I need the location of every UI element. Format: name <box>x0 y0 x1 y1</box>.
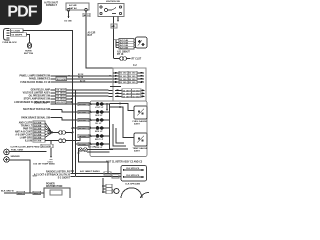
wires to motor boxes <box>110 104 135 111</box>
lamp captions <box>95 107 104 149</box>
ignition switch connector (left) <box>4 29 10 41</box>
svg-text:STOP LAMP BRAKE SW: STOP LAMP BRAKE SW <box>24 98 51 101</box>
svg-text:BELT LP: BELT LP <box>95 139 104 141</box>
svg-text:TEMP GAUGE: TEMP GAUGE <box>133 147 148 150</box>
svg-text:F1 20DB: F1 20DB <box>11 30 20 32</box>
svg-text:PANEL LAMPS DIMMER SW: PANEL LAMPS DIMMER SW <box>19 75 50 78</box>
svg-text:E2 18O: E2 18O <box>129 76 136 78</box>
svg-text:BRK LP: BRK LP <box>95 131 103 133</box>
svg-text:ASSY: ASSY <box>134 150 140 153</box>
svg-text:POWER: POWER <box>46 183 55 185</box>
svg-text:VOLTAGE LIMITER ASSY: VOLTAGE LIMITER ASSY <box>23 92 51 95</box>
svg-text:AND CLSTR: AND CLSTR <box>19 122 33 125</box>
label on C110 drop wire <box>10 145 40 148</box>
svg-text:RADIO/CLUSTER LPS: RADIO/CLUSTER LPS <box>46 170 70 173</box>
row 6 from rail <box>76 143 91 145</box>
bottom-left ground bus <box>4 192 44 194</box>
horn small circle <box>114 189 119 194</box>
svg-text:BAT A0: BAT A0 <box>69 7 77 10</box>
svg-text:A-B LMP CONT: A-B LMP CONT <box>15 134 32 137</box>
svg-text:E2 18O: E2 18O <box>120 76 127 78</box>
wire A2 with label box <box>51 78 113 80</box>
svg-text:G4 18GY: G4 18GY <box>123 89 132 92</box>
inline connector C100 <box>120 57 124 61</box>
svg-text:ASSY: ASSY <box>134 123 140 126</box>
svg-text:G6 20B: G6 20B <box>34 132 42 134</box>
svg-text:GEN LP: GEN LP <box>95 115 103 117</box>
fuel sender circle <box>4 149 10 155</box>
big circle bottom right <box>121 188 142 209</box>
group 1 rows <box>113 73 144 82</box>
wire to connector oval 1 <box>52 132 59 134</box>
svg-text:G10 8B: G10 8B <box>79 120 86 122</box>
svg-text:E2 18O: E2 18O <box>120 79 127 81</box>
svg-text:PANEL DIMMER E2: PANEL DIMMER E2 <box>29 78 51 81</box>
svg-text:TRUNK LT: TRUNK LT <box>21 126 33 128</box>
wire: drop from oval line to C110 arrow <box>50 140 52 142</box>
svg-text:FUSE BLOCK PANEL F4 18: FUSE BLOCK PANEL F4 18 <box>20 81 50 84</box>
svg-text:OIL LP: OIL LP <box>95 123 102 125</box>
svg-text:CLK SPR ASM: CLK SPR ASM <box>125 183 140 186</box>
svg-text:ANTI A-B CONT: ANTI A-B CONT <box>15 131 33 134</box>
left label rows group B <box>14 89 51 104</box>
svg-text:GEN FIELD LAMP: GEN FIELD LAMP <box>31 89 51 92</box>
svg-text:E-2 18OR/T: E-2 18OR/T <box>58 177 71 179</box>
wire from temp sender <box>9 160 30 193</box>
svg-text:SEAT BELT BUCKLE SW: SEAT BELT BUCKLE SW <box>23 108 51 111</box>
junction <box>51 132 53 134</box>
svg-text:E2 18O: E2 18O <box>129 79 136 81</box>
svg-text:A0 12R: A0 12R <box>88 146 96 149</box>
svg-text:G10 T: G10 T <box>34 193 41 195</box>
svg-text:A0 12: A0 12 <box>84 14 91 17</box>
svg-text:G4 18GY: G4 18GY <box>56 89 66 92</box>
row left label boxes <box>78 102 89 145</box>
svg-text:BAT: BAT <box>88 34 93 37</box>
svg-text:G4 20B: G4 20B <box>34 125 42 128</box>
svg-text:G9 18GY: G9 18GY <box>56 99 66 101</box>
svg-text:A-21 CKT 6 STR/BACK 20L/TN 20: A-21 CKT 6 STR/BACK 20L/TN 20 <box>34 173 71 176</box>
svg-text:A21 20B: A21 20B <box>120 47 128 50</box>
left label rows group A <box>19 75 50 84</box>
motor box M1 <box>134 106 147 119</box>
wire: relay down feed <box>113 20 115 58</box>
svg-text:E2 18O: E2 18O <box>120 73 127 75</box>
right mid text rows above power dist <box>34 170 71 179</box>
svg-text:A2 14R: A2 14R <box>69 4 77 7</box>
wire: fuse feed to right rail <box>23 30 73 173</box>
wire: to horn button <box>27 35 30 43</box>
svg-text:G6 18GY: G6 18GY <box>132 96 141 98</box>
svg-text:E2 18O: E2 18O <box>120 82 127 84</box>
svg-text:E2 18O: E2 18O <box>129 73 136 75</box>
wire: left pin drop <box>68 11 70 16</box>
svg-text:G10 T: G10 T <box>18 193 25 195</box>
svg-text:G8 20B: G8 20B <box>34 138 42 140</box>
svg-text:A21 16B: A21 16B <box>120 41 128 44</box>
power distribution box bottom center <box>46 183 63 188</box>
label box on wire <box>83 13 90 17</box>
left connector block labels <box>15 122 33 143</box>
svg-text:BLK GRD W: BLK GRD W <box>1 190 15 192</box>
svg-text:OIL PRESSURE SW: OIL PRESSURE SW <box>29 96 51 98</box>
svg-text:E2 18: E2 18 <box>78 74 84 76</box>
wire labels right of rows A <box>78 74 86 82</box>
bus lines bottom <box>73 173 122 175</box>
svg-text:CLK SPR LPS: CLK SPR LPS <box>126 175 140 177</box>
svg-text:A0 12R: A0 12R <box>88 32 96 35</box>
pin right of horn relay <box>85 8 88 11</box>
right rail <box>110 104 129 149</box>
wire label mid <box>88 32 96 38</box>
horn button symbol <box>27 43 31 48</box>
svg-text:DOME LAMP: DOME LAMP <box>34 101 49 104</box>
svg-text:VOLT LP: VOLT LP <box>95 107 104 109</box>
svg-text:FUEL GAUGE: FUEL GAUGE <box>133 120 148 123</box>
wire A1 <box>51 75 113 77</box>
bottom middle fuse cluster <box>79 148 83 152</box>
bottom right bus box <box>121 166 147 182</box>
svg-text:G10 18T TEMP SEND: G10 18T TEMP SEND <box>33 164 55 166</box>
lamp dot pairs <box>96 102 104 146</box>
svg-text:CLSTR ILLUM LAMPS FEED: CLSTR ILLUM LAMPS FEED <box>10 145 40 148</box>
rail start diagonal <box>75 90 77 176</box>
svg-text:G4 18GY: G4 18GY <box>132 89 141 92</box>
ignition relay box (top right) <box>106 1 121 3</box>
svg-text:G3 20B: G3 20B <box>34 123 42 125</box>
svg-text:G1 18GY: G1 18GY <box>123 93 132 95</box>
svg-text:LAMP GRD: LAMP GRD <box>20 137 33 140</box>
svg-text:PARK BRAKE SIGNAL SW: PARK BRAKE SIGNAL SW <box>21 116 51 119</box>
wire from fuel sender <box>9 151 46 153</box>
wire A3 <box>51 81 113 83</box>
label box 2 <box>11 33 27 37</box>
svg-text:E2 18O: E2 18O <box>129 82 136 84</box>
svg-text:A21 14BK/T RADIO: A21 14BK/T RADIO <box>80 170 100 173</box>
svg-text:G5 18B: G5 18B <box>64 21 72 23</box>
svg-text:G5 20B: G5 20B <box>34 129 42 131</box>
text above inline connector <box>117 51 130 57</box>
svg-text:A21 18B: A21 18B <box>120 44 128 47</box>
svg-text:SENDER: SENDER <box>11 156 21 158</box>
svg-text:A21 18BK/T: A21 18BK/T <box>117 51 130 54</box>
label box 1 <box>11 29 24 32</box>
svg-text:E2 18OR: E2 18OR <box>42 146 51 148</box>
pin left of horn relay <box>67 8 70 11</box>
svg-text:G9 20B: G9 20B <box>34 141 42 143</box>
svg-text:G9 18B: G9 18B <box>79 144 86 146</box>
svg-text:RT CLST: RT CLST <box>132 59 142 61</box>
svg-text:CLK SPR LPS: CLK SPR LPS <box>126 168 140 170</box>
svg-text:G4 18B: G4 18B <box>79 103 86 106</box>
svg-text:PDF: PDF <box>7 4 37 21</box>
wire: horn relay label text top <box>44 1 58 7</box>
svg-text:FUSE BLOCK: FUSE BLOCK <box>3 42 18 44</box>
X marks on box edge <box>89 103 91 145</box>
svg-text:G7 20B: G7 20B <box>34 135 42 137</box>
horn relay box <box>66 3 89 10</box>
svg-text:ILLUM: ILLUM <box>25 141 32 143</box>
svg-text:INST CLUSTER ASSY C2 AND C3: INST CLUSTER ASSY C2 AND C3 <box>106 161 143 164</box>
svg-text:G1 18GY: G1 18GY <box>132 93 141 95</box>
svg-text:BUTTON: BUTTON <box>24 53 33 55</box>
svg-text:PRK LP: PRK LP <box>95 147 103 149</box>
wire: right pin long drop to cluster <box>86 11 113 68</box>
motor box M2 <box>134 133 147 146</box>
group 2 rows <box>110 86 121 88</box>
svg-text:G6 18GY: G6 18GY <box>123 96 132 98</box>
svg-text:G5 18B: G5 18B <box>79 136 86 138</box>
wire row7 to connector oval 2 <box>45 140 59 142</box>
bottom right stubs <box>102 178 104 192</box>
single rows to cluster <box>21 101 51 119</box>
top-right connector rows table <box>114 40 136 48</box>
upper right rows box <box>113 68 146 101</box>
fan wires to junction <box>45 123 52 138</box>
down arrow top right <box>106 103 108 109</box>
PDF badge <box>0 0 42 25</box>
top-right connector box <box>136 37 148 48</box>
svg-text:G6 20B/PK: G6 20B/PK <box>11 35 23 37</box>
indicator rows <box>90 104 110 144</box>
svg-text:IGNITION SW: IGNITION SW <box>106 1 121 3</box>
svg-text:E2 18OR: E2 18OR <box>57 79 66 81</box>
svg-text:RT 18: RT 18 <box>117 54 124 56</box>
svg-text:PWR TR: PWR TR <box>23 129 32 131</box>
svg-text:E2 18O: E2 18O <box>79 128 86 130</box>
svg-text:G1 18B: G1 18B <box>79 112 86 114</box>
svg-text:G1 18GY: G1 18GY <box>56 93 66 95</box>
svg-text:A21 14B: A21 14B <box>120 39 128 42</box>
svg-text:G6 18GY: G6 18GY <box>56 96 66 98</box>
cluster box big (instrument cluster) <box>90 101 147 157</box>
svg-text:DOWN LT: DOWN LT <box>46 4 58 7</box>
relay pin stubs <box>113 17 115 21</box>
temp sender circle <box>4 157 10 163</box>
wire to inline connector <box>114 58 120 60</box>
